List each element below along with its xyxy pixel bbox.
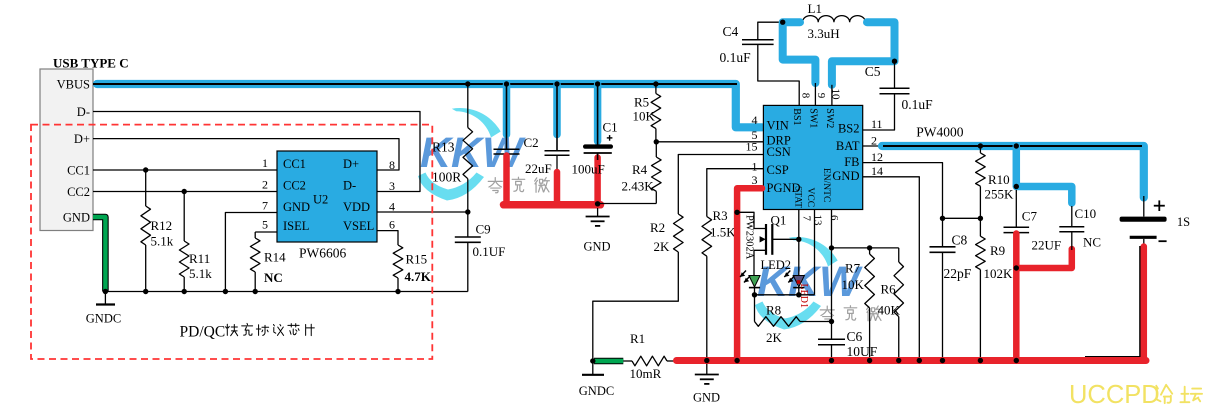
svg-text:6: 6 <box>389 218 395 232</box>
svg-text:GNDC: GNDC <box>579 384 614 398</box>
svg-text:R7: R7 <box>845 261 861 276</box>
svg-text:4.7K: 4.7K <box>405 269 432 284</box>
svg-text:VSEL: VSEL <box>343 219 374 233</box>
svg-text:5.1k: 5.1k <box>189 266 212 281</box>
svg-text:3: 3 <box>389 179 395 193</box>
svg-text:CSP: CSP <box>767 163 789 177</box>
svg-text:SW2: SW2 <box>824 108 835 128</box>
svg-text:15: 15 <box>746 140 758 154</box>
svg-text:12: 12 <box>871 150 883 164</box>
svg-text:100R: 100R <box>432 170 461 185</box>
svg-text:11: 11 <box>871 117 883 131</box>
svg-text:PW6606: PW6606 <box>299 246 347 261</box>
svg-text:3: 3 <box>752 173 758 187</box>
svg-text:R3: R3 <box>713 208 728 223</box>
svg-text:R6: R6 <box>881 282 897 297</box>
svg-text:10: 10 <box>830 89 842 101</box>
svg-text:7: 7 <box>262 199 268 213</box>
svg-text:100uF: 100uF <box>572 162 605 177</box>
svg-text:BS1: BS1 <box>791 108 802 125</box>
svg-text:GND: GND <box>283 200 310 214</box>
svg-text:LED2: LED2 <box>761 258 792 272</box>
svg-text:1: 1 <box>752 159 758 173</box>
svg-text:R9: R9 <box>990 243 1005 258</box>
svg-text:0.1UF: 0.1UF <box>473 244 506 259</box>
svg-text:10UF: 10UF <box>847 344 878 359</box>
svg-text:C10: C10 <box>1075 206 1097 221</box>
svg-text:C2: C2 <box>524 135 539 150</box>
svg-text:10K: 10K <box>633 109 656 124</box>
svg-text:7: 7 <box>800 216 812 222</box>
svg-text:Q1: Q1 <box>771 213 787 228</box>
svg-text:R5: R5 <box>634 95 649 110</box>
svg-text:R10: R10 <box>988 172 1010 187</box>
svg-text:EN/NTC: EN/NTC <box>821 168 831 202</box>
svg-text:C8: C8 <box>952 233 968 248</box>
svg-text:L1: L1 <box>808 1 822 16</box>
svg-text:5: 5 <box>262 218 268 232</box>
svg-text:255K: 255K <box>985 187 1015 202</box>
svg-text:9: 9 <box>815 93 827 99</box>
svg-text:PW4000: PW4000 <box>916 125 964 140</box>
svg-text:UCCPD: UCCPD <box>1069 381 1160 408</box>
svg-text:10mR: 10mR <box>630 366 662 381</box>
svg-text:PW2302A: PW2302A <box>743 215 754 260</box>
svg-text:VIN: VIN <box>767 118 789 132</box>
svg-text:22UF: 22UF <box>1032 238 1062 253</box>
svg-text:STAT: STAT <box>792 186 802 208</box>
svg-text:102K: 102K <box>984 266 1014 281</box>
svg-text:GND: GND <box>583 240 610 254</box>
svg-text:SW1: SW1 <box>807 108 818 128</box>
svg-text:BAT: BAT <box>836 139 860 153</box>
svg-text:CSN: CSN <box>767 145 791 159</box>
svg-text:PD/QC: PD/QC <box>180 324 226 341</box>
svg-text:CC2: CC2 <box>67 185 90 199</box>
svg-text:0.1uF: 0.1uF <box>902 97 934 112</box>
svg-text:GND: GND <box>693 391 720 405</box>
svg-text:C1: C1 <box>603 120 618 135</box>
svg-text:D-: D- <box>343 179 356 193</box>
svg-text:VDD: VDD <box>343 200 370 214</box>
svg-text:R12: R12 <box>151 218 173 233</box>
svg-text:C6: C6 <box>847 329 863 344</box>
svg-text:U2: U2 <box>313 193 328 207</box>
svg-text:USB TYPE C: USB TYPE C <box>53 56 129 71</box>
svg-text:R13: R13 <box>432 140 455 155</box>
svg-text:VCC: VCC <box>805 188 815 208</box>
svg-text:R2: R2 <box>650 220 665 235</box>
svg-text:0.1uF: 0.1uF <box>720 50 752 65</box>
svg-text:R8: R8 <box>766 303 781 318</box>
svg-text:C7: C7 <box>1022 209 1038 224</box>
svg-text:GNDC: GNDC <box>86 312 121 326</box>
svg-text:8: 8 <box>799 93 811 99</box>
svg-text:CC1: CC1 <box>283 157 306 171</box>
svg-text:R1: R1 <box>630 331 645 346</box>
svg-text:R14: R14 <box>264 250 286 265</box>
svg-text:2: 2 <box>262 178 268 192</box>
svg-text:D+: D+ <box>343 157 359 171</box>
svg-text:6: 6 <box>828 215 840 221</box>
svg-text:NC: NC <box>264 270 283 285</box>
svg-text:1S: 1S <box>1177 215 1190 229</box>
svg-text:C9: C9 <box>476 222 491 237</box>
svg-text:CC1: CC1 <box>67 163 90 177</box>
svg-text:ISEL: ISEL <box>283 219 309 233</box>
svg-text:R15: R15 <box>406 252 428 267</box>
svg-text:1.5K: 1.5K <box>710 225 736 240</box>
svg-text:GND: GND <box>63 210 90 224</box>
svg-text:2.43K: 2.43K <box>622 179 655 194</box>
svg-text:D+: D+ <box>74 132 90 146</box>
svg-text:13: 13 <box>811 215 823 227</box>
svg-text:2K: 2K <box>654 239 671 254</box>
svg-text:BS2: BS2 <box>838 122 860 136</box>
svg-text:14: 14 <box>871 164 883 178</box>
svg-text:10K: 10K <box>842 277 865 292</box>
svg-text:VBUS: VBUS <box>57 77 90 91</box>
svg-text:NC: NC <box>1083 235 1101 250</box>
svg-text:40K: 40K <box>878 303 901 318</box>
svg-text:22uF: 22uF <box>525 161 552 176</box>
svg-text:D-: D- <box>77 105 90 119</box>
svg-text:FB: FB <box>844 155 859 169</box>
svg-text:GND: GND <box>832 169 859 183</box>
svg-text:22pF: 22pF <box>944 266 972 281</box>
svg-text:5.1k: 5.1k <box>151 234 174 249</box>
svg-text:3.3uH: 3.3uH <box>808 26 840 41</box>
svg-text:4: 4 <box>752 113 758 127</box>
svg-text:R4: R4 <box>632 162 648 177</box>
svg-text:R11: R11 <box>189 251 210 266</box>
svg-text:C5: C5 <box>865 64 881 79</box>
svg-text:C4: C4 <box>723 24 739 39</box>
svg-text:2K: 2K <box>766 330 783 345</box>
svg-text:8: 8 <box>389 158 395 172</box>
svg-text:CC2: CC2 <box>283 179 306 193</box>
svg-text:1: 1 <box>262 156 268 170</box>
